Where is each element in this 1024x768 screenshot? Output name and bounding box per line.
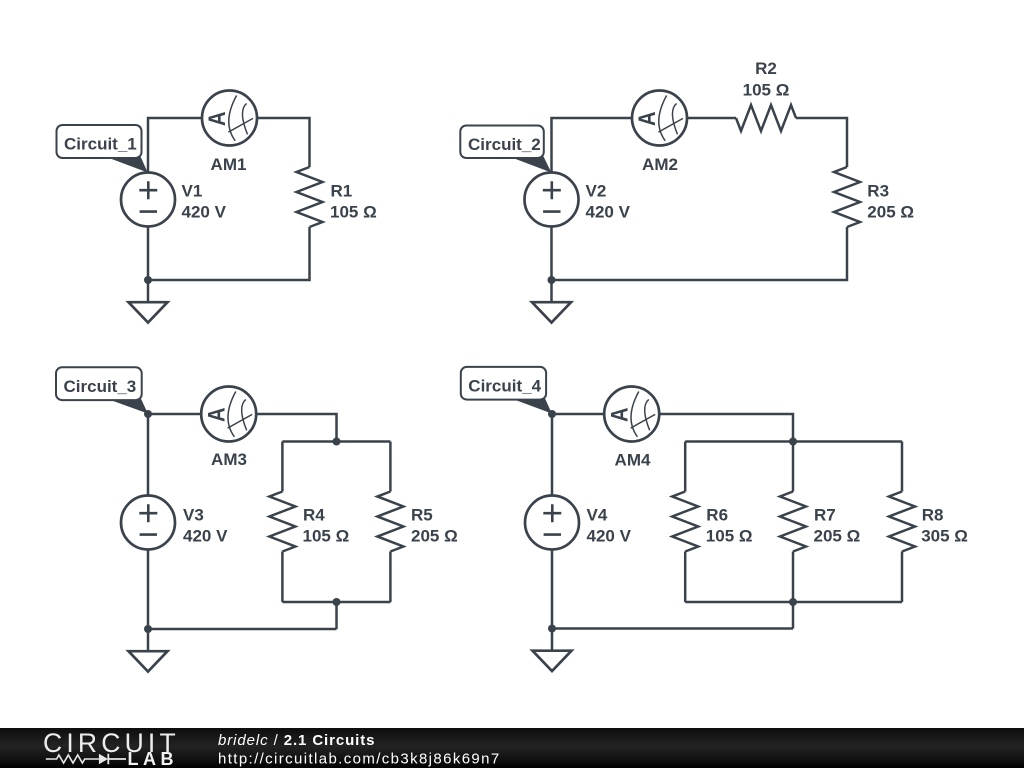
node: V1 bottom junction — [144, 276, 152, 284]
svg-text:bridelc / 2.1 Circuits: bridelc / 2.1 Circuits — [218, 732, 375, 749]
resistor R2 — [736, 105, 796, 131]
resistor R5 — [377, 492, 403, 552]
wire: R5 top branch — [389, 442, 392, 492]
ammeter AM1 — [202, 91, 257, 146]
svg-text:105 Ω: 105 Ω — [303, 527, 350, 546]
wire: V1 top up, top rail, down to R1 top — [148, 118, 310, 174]
svg-text:205 Ω: 205 Ω — [814, 527, 861, 546]
wire: R2 right to corner, down to R3 top — [796, 118, 847, 167]
svg-text:305 Ω: 305 Ω — [921, 527, 968, 546]
svg-text:420 V: 420 V — [183, 527, 228, 546]
node label callout Circuit_2 tail — [509, 157, 551, 173]
wire: left rail from bottom node up to top rail, right to corner, down to top bus — [148, 414, 337, 629]
wire: left rail from bottom node up to top rail, right to corner, down to top bus — [552, 414, 793, 629]
node label callout Circuit_1 tail — [105, 157, 148, 173]
resistor R8 — [889, 492, 915, 552]
wire: R8 top branch — [901, 442, 904, 492]
wire: bus to bottom rail — [335, 602, 338, 629]
svg-text:AM4: AM4 — [615, 451, 651, 470]
node: V2 bottom junction — [548, 276, 556, 284]
svg-text:AM3: AM3 — [211, 450, 247, 469]
wire: bottom bus of parallel trio — [685, 601, 902, 604]
ground — [533, 629, 572, 672]
node: top bus junction — [333, 438, 341, 446]
node label callout Circuit_3 tail — [107, 399, 148, 414]
node: V4 bottom junction — [548, 625, 556, 633]
wire: top bus of parallel trio — [685, 440, 902, 443]
node: V3 bottom junction — [144, 625, 152, 633]
svg-text:205 Ω: 205 Ω — [867, 203, 914, 222]
wire: bottom rail — [148, 628, 337, 631]
resistor R3 — [834, 167, 860, 227]
ammeter AM3 — [201, 387, 256, 442]
svg-text:V2: V2 — [586, 182, 607, 201]
node: bottom bus junction — [333, 598, 341, 606]
ground — [129, 629, 168, 672]
resistor R4 — [269, 492, 295, 552]
CircuitLab logo diode — [99, 754, 108, 764]
svg-text:R5: R5 — [411, 506, 433, 525]
node: top-left junction — [144, 410, 152, 418]
svg-text:http://circuitlab.com/cb3k8j86: http://circuitlab.com/cb3k8j86k69n7 — [218, 751, 501, 768]
svg-text:LAB: LAB — [128, 749, 179, 768]
node label callout Circuit_4 box — [461, 367, 546, 400]
svg-text:R4: R4 — [303, 506, 325, 525]
wire: R7 top branch — [792, 442, 795, 492]
svg-text:420 V: 420 V — [587, 527, 632, 546]
resistor R1 — [297, 167, 323, 227]
voltage source V3 — [121, 496, 175, 550]
svg-text:105 Ω: 105 Ω — [330, 203, 377, 222]
wire: bus to bottom rail — [792, 602, 795, 629]
svg-text:Circuit_4: Circuit_4 — [468, 377, 541, 396]
svg-text:105 Ω: 105 Ω — [706, 527, 753, 546]
svg-text:R1: R1 — [331, 182, 353, 201]
node label callout Circuit_4 tail — [511, 398, 552, 413]
wire: R4 top branch — [281, 442, 284, 492]
wire: V2 top up, top rail left of R2 — [552, 118, 737, 174]
svg-text:205 Ω: 205 Ω — [411, 527, 458, 546]
svg-text:420 V: 420 V — [182, 203, 227, 222]
svg-text:AM1: AM1 — [211, 155, 247, 174]
footer background bar — [0, 728, 1024, 768]
wire: bottom rail — [552, 627, 793, 630]
node label callout Circuit_3 box — [56, 367, 142, 400]
wire: R4 bottom branch — [281, 552, 284, 603]
ground — [532, 280, 571, 323]
svg-text:AM2: AM2 — [642, 155, 678, 174]
wire: R1 bottom down, bottom rail, up to V1 bottom — [148, 225, 310, 280]
resistor R6 — [672, 492, 698, 552]
wire: R7 bottom branch — [792, 552, 795, 603]
ammeter AM4 — [604, 387, 659, 442]
voltage source V2 — [525, 173, 579, 227]
svg-text:Circuit_3: Circuit_3 — [64, 377, 137, 396]
svg-text:R3: R3 — [867, 182, 889, 201]
wire: R3 bottom down, bottom rail, up to V2 bottom — [552, 225, 848, 280]
svg-text:R6: R6 — [706, 506, 728, 525]
svg-text:R7: R7 — [814, 506, 836, 525]
wire: R8 bottom branch — [901, 552, 904, 603]
ammeter AM2 — [632, 91, 687, 146]
node: bottom bus junction — [789, 598, 797, 606]
svg-text:105 Ω: 105 Ω — [743, 81, 790, 100]
svg-text:V1: V1 — [182, 182, 203, 201]
resistor R7 — [780, 492, 806, 552]
node: top bus junction — [789, 438, 797, 446]
node label callout Circuit_2 box — [460, 126, 544, 159]
wire: top bus of parallel pair — [282, 440, 390, 443]
svg-text:Circuit_1: Circuit_1 — [64, 135, 137, 154]
CircuitLab logo resistor-diode glyph — [46, 755, 99, 763]
svg-text:V4: V4 — [587, 506, 608, 525]
voltage source V1 — [121, 173, 175, 227]
ground — [129, 280, 168, 323]
svg-text:R2: R2 — [755, 59, 777, 78]
svg-text:V3: V3 — [183, 506, 204, 525]
wire: R6 bottom branch — [684, 552, 687, 603]
wire: R6 top branch — [684, 442, 687, 492]
wire: R5 bottom branch — [389, 552, 392, 603]
svg-text:420 V: 420 V — [586, 203, 631, 222]
svg-text:Circuit_2: Circuit_2 — [468, 135, 541, 154]
wire: bottom bus of parallel pair — [282, 601, 390, 604]
voltage source V4 — [525, 496, 579, 550]
svg-text:R8: R8 — [922, 506, 944, 525]
node label callout Circuit_1 box — [57, 125, 142, 158]
node: top-left junction — [548, 410, 556, 418]
